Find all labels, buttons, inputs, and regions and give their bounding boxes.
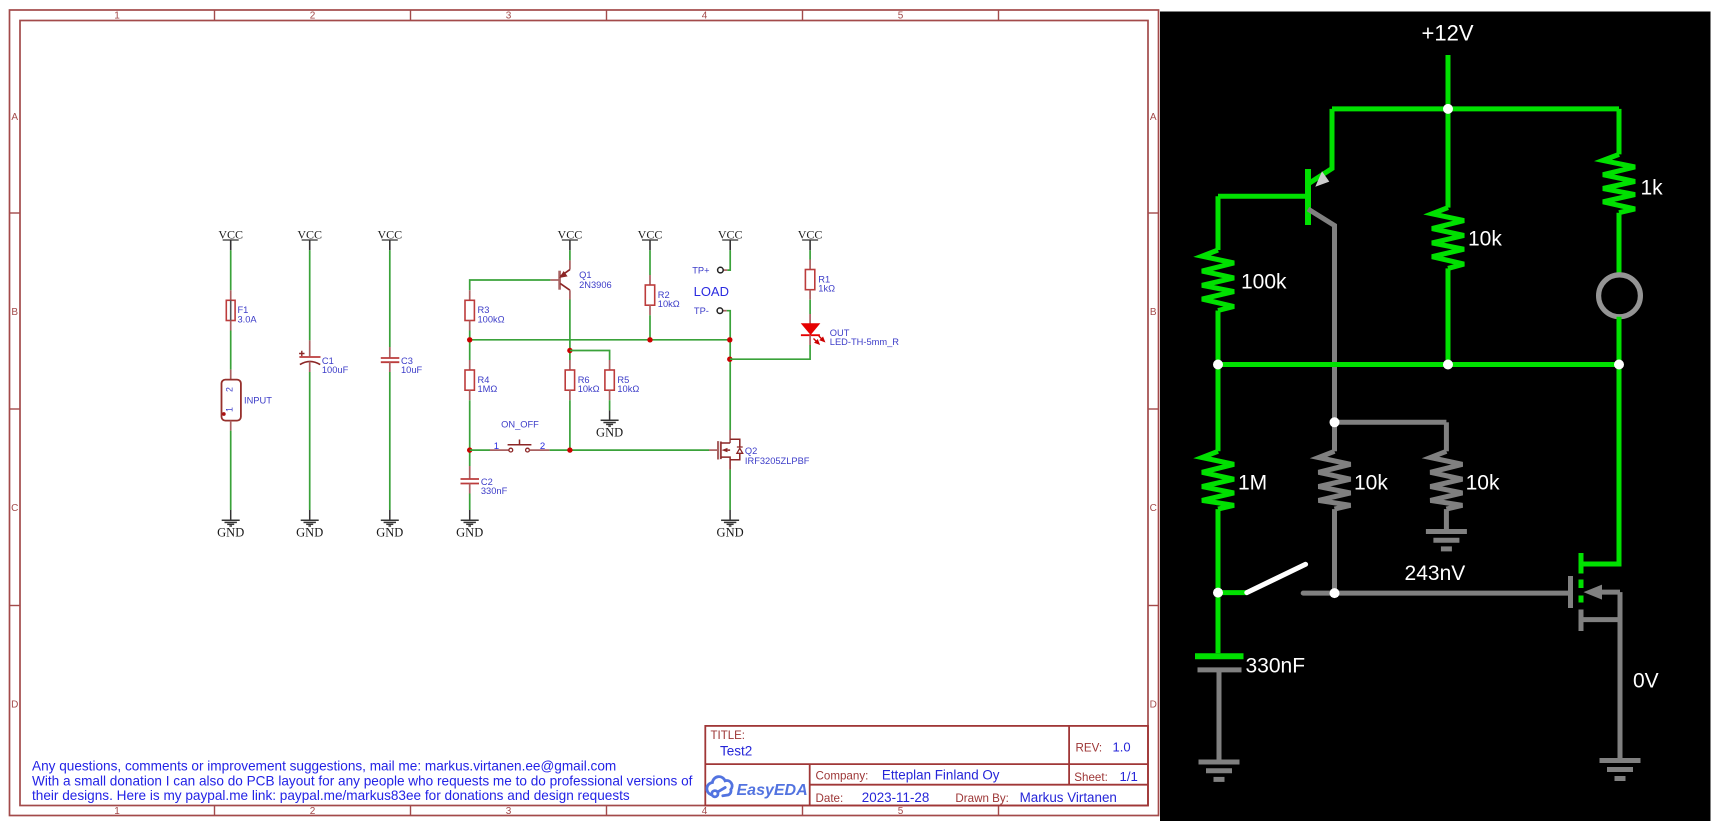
LED OUT <box>801 314 824 345</box>
resistor R4 <box>465 360 474 400</box>
power flag VCC net Q1 column <box>558 227 583 250</box>
label R3 100k <box>478 305 505 324</box>
test point TP- <box>717 308 727 314</box>
title block company value <box>882 768 1000 783</box>
svg-text:3: 3 <box>506 11 512 22</box>
label +12V <box>1422 21 1474 46</box>
svg-text:B: B <box>1150 307 1157 318</box>
label R5 10k <box>617 375 639 394</box>
title block title value Test2 <box>720 744 752 759</box>
label OUT LED-TH-5mm_R <box>830 328 899 347</box>
ground symbol R5 <box>601 410 619 426</box>
svg-text:10k: 10k <box>1354 472 1388 495</box>
svg-text:10kΩ: 10kΩ <box>658 299 680 309</box>
label R4 1M <box>478 375 498 394</box>
ground symbol Q2 <box>721 510 739 526</box>
svg-text:10k: 10k <box>1466 472 1500 495</box>
resistor R1 <box>805 260 814 300</box>
svg-text:4: 4 <box>702 806 708 817</box>
column tick marks bottom band <box>215 806 999 816</box>
svg-text:2: 2 <box>540 441 545 452</box>
capacitor C3 <box>381 347 400 372</box>
wire switch stub <box>1218 590 1247 595</box>
svg-text:1: 1 <box>114 11 120 22</box>
wire top rail <box>1332 106 1619 111</box>
wire F1 to INPUT <box>230 331 232 370</box>
row labels right <box>1150 112 1157 711</box>
MOSFET channel segment green1 <box>1579 564 1584 574</box>
svg-text:10kΩ: 10kΩ <box>617 384 639 394</box>
svg-text:D: D <box>1150 700 1157 711</box>
wire R5 to GND <box>609 400 611 410</box>
svg-text:100k: 100k <box>1241 271 1287 294</box>
node dot bus right <box>1614 360 1624 370</box>
wire VCC to R2 <box>649 250 651 275</box>
resistor R5 <box>605 360 614 400</box>
junction node R6 R5 <box>567 348 572 353</box>
power flag VCC net C3 column <box>377 227 402 250</box>
resistor R3 <box>465 290 474 330</box>
transistor Q1 PNP <box>550 260 570 299</box>
junction node bus R6 <box>567 447 572 452</box>
transistor Q2 MOSFET <box>709 430 743 470</box>
ground label GND C1 column <box>296 525 323 539</box>
connector P INPUT <box>222 370 241 431</box>
label INPUT <box>244 395 272 405</box>
svg-text:Etteplan Finland Oy: Etteplan Finland Oy <box>882 768 1000 783</box>
node dot top rail <box>1443 104 1453 114</box>
label TP+ <box>692 265 709 275</box>
EasyEDA logo cloud <box>707 777 732 797</box>
node dot bus left <box>1213 360 1223 370</box>
title block REV label <box>1076 742 1103 755</box>
junction node bottom bus left <box>467 447 472 452</box>
label 243nV <box>1405 562 1466 585</box>
wire VCC to R1 <box>809 250 811 259</box>
title block drawn by value <box>1020 790 1117 805</box>
wire VCC to C3 <box>389 250 391 347</box>
ground symbol C1 column <box>301 510 319 526</box>
wire VCC to TP+ <box>727 250 730 270</box>
MOSFET body link wire <box>1602 590 1620 595</box>
MOSFET channel segment green2 <box>1579 580 1584 589</box>
capacitor 330nF top plate <box>1195 653 1244 659</box>
svg-text:VCC: VCC <box>558 227 583 241</box>
label ON_OFF <box>501 419 539 429</box>
title block frame <box>705 726 1148 806</box>
pin number 2 <box>540 441 545 452</box>
title block Sheet label <box>1074 771 1108 784</box>
junction node LED wire <box>727 357 732 362</box>
label C2 330nF <box>481 477 508 496</box>
ground label GND F1 column <box>217 525 244 539</box>
svg-text:VCC: VCC <box>638 227 663 241</box>
svg-text:C: C <box>1150 503 1157 514</box>
svg-text:243nV: 243nV <box>1405 562 1466 585</box>
wire VCC to F1 <box>230 250 232 290</box>
title block Company label <box>816 770 869 783</box>
svg-text:1: 1 <box>494 441 499 452</box>
wire R2 to main net <box>649 315 651 340</box>
svg-text:VCC: VCC <box>218 227 243 241</box>
svg-text:IRF3205ZLPBF: IRF3205ZLPBF <box>745 456 810 466</box>
wire 1M to switch <box>1216 509 1221 592</box>
wire 10k to bus <box>1446 268 1451 364</box>
wire VCC to Q1 emitter <box>569 250 571 260</box>
svg-text:1: 1 <box>225 407 235 412</box>
svg-text:2: 2 <box>225 387 235 392</box>
row tick marks left band <box>10 213 21 606</box>
svg-text:TP-: TP- <box>694 306 709 316</box>
capacitor C2 <box>461 466 480 494</box>
wire 100k to bus <box>1216 311 1221 365</box>
svg-text:Date:: Date: <box>816 792 844 805</box>
node dot gate line <box>1330 588 1340 598</box>
junction node TP main net <box>727 337 732 342</box>
label R2 10k <box>658 290 680 309</box>
wire drain from bus <box>1581 365 1619 565</box>
column labels top <box>114 11 904 22</box>
svg-text:VCC: VCC <box>798 227 823 241</box>
svg-text:A: A <box>1150 112 1157 123</box>
ground symbol below 10k gray2 <box>1426 532 1467 549</box>
svg-text:With a small donation I can al: With a small donation I can also do PCB … <box>32 773 693 788</box>
svg-text:REV:: REV: <box>1076 742 1103 755</box>
wire base to 100k <box>1216 196 1221 250</box>
svg-text:Drawn By:: Drawn By: <box>955 792 1008 805</box>
svg-text:5: 5 <box>898 11 904 22</box>
node dot switch pivot <box>1213 588 1223 598</box>
svg-text:2023-11-28: 2023-11-28 <box>862 790 930 805</box>
wire 10k gray2 top lead <box>1444 422 1449 451</box>
svg-text:1: 1 <box>114 806 120 817</box>
power flag VCC net R1 column <box>798 227 823 250</box>
node dot bus center <box>1443 360 1453 370</box>
svg-text:TP+: TP+ <box>692 265 709 275</box>
switch lever open <box>1247 564 1306 592</box>
wire TP- down to Q2 drain <box>727 311 730 430</box>
border frame inner rect <box>20 21 1148 806</box>
svg-text:Any questions, comments or imp: Any questions, comments or improvement s… <box>32 759 616 774</box>
border frame outer rect <box>10 10 1159 816</box>
resistor R2 <box>645 275 654 315</box>
ground symbol C2 column <box>461 510 479 526</box>
svg-text:TITLE:: TITLE: <box>711 730 746 742</box>
resistor 10k green <box>1432 208 1464 269</box>
svg-text:3.0A: 3.0A <box>238 314 258 324</box>
bottom bus wire right segment <box>550 449 709 451</box>
svg-text:Sheet:: Sheet: <box>1074 771 1108 784</box>
svg-text:Company:: Company: <box>816 770 869 783</box>
wire rail to 1k <box>1617 109 1622 154</box>
power flag VCC net C1 column <box>297 227 322 250</box>
wire VCC to C1 <box>309 250 311 340</box>
wire source to ground <box>1618 592 1623 758</box>
wire 1k to LED <box>1617 213 1622 276</box>
label TP- <box>694 306 709 316</box>
node dot gray junction <box>1330 417 1340 427</box>
switch SW ON_OFF <box>490 440 550 453</box>
svg-text:ON_OFF: ON_OFF <box>501 419 539 429</box>
transistor Q1 base bar <box>1305 169 1311 225</box>
label R1 1k <box>818 274 835 293</box>
svg-text:VCC: VCC <box>377 227 402 241</box>
svg-text:10kΩ: 10kΩ <box>578 384 600 394</box>
transistor Q1 collector lead <box>1308 209 1335 422</box>
wire 10k gray1 to gate line <box>1332 509 1337 593</box>
label 100k <box>1241 271 1287 294</box>
svg-text:GND: GND <box>296 525 323 539</box>
EasyEDA logo text <box>737 782 808 799</box>
ground symbol F1 column <box>222 510 240 526</box>
svg-text:D: D <box>11 700 18 711</box>
svg-text:Markus Virtanen: Markus Virtanen <box>1020 790 1117 805</box>
wire R3 to junction <box>469 331 471 361</box>
label F1 3.0A <box>238 305 258 324</box>
svg-text:GND: GND <box>376 525 403 539</box>
wire cap to ground <box>1217 670 1222 761</box>
ground symbol below cap <box>1199 762 1240 779</box>
svg-text:3: 3 <box>506 806 512 817</box>
wire to Q1 emitter <box>1308 109 1332 184</box>
wire 10k gray1 top lead <box>1332 422 1337 451</box>
svg-text:LOAD: LOAD <box>694 284 729 299</box>
test point TP+ <box>718 267 728 273</box>
row tick marks right band <box>1148 213 1159 606</box>
svg-text:GND: GND <box>456 525 483 539</box>
wire switch to MOSFET gate <box>1303 591 1568 596</box>
svg-text:their designs. Here is my payp: their designs. Here is my paypal.me link… <box>32 788 630 803</box>
svg-text:330nF: 330nF <box>1246 655 1306 678</box>
wire Q1 base <box>1218 194 1308 199</box>
pin number 1 <box>494 441 499 452</box>
svg-text:1M: 1M <box>1238 472 1267 495</box>
MOSFET channel segment green3 <box>1579 596 1584 603</box>
ground label GND C2 column <box>456 525 483 539</box>
wire C1 to GND <box>309 372 311 510</box>
wire R1 to LED <box>809 300 811 314</box>
wire C3 to GND <box>389 372 391 510</box>
label C3 10uF <box>401 356 423 375</box>
label 330nF <box>1246 655 1306 678</box>
wire 10k gray2 to ground <box>1444 509 1449 530</box>
svg-text:0V: 0V <box>1633 670 1659 693</box>
MOSFET source stub <box>1581 617 1620 622</box>
resistor 10k gray2 <box>1430 451 1462 509</box>
label R6 10k <box>578 375 600 394</box>
bottom bus wire left segment <box>470 449 490 451</box>
wire branch to R5 <box>570 351 610 361</box>
svg-text:C: C <box>11 503 18 514</box>
label 10k gray2 <box>1466 472 1500 495</box>
svg-text:2: 2 <box>310 11 316 22</box>
column tick marks top band <box>215 10 999 21</box>
label LOAD <box>694 284 729 299</box>
label Q2 IRF3205ZLPBF <box>745 446 810 466</box>
title block sheet value 1/1 <box>1120 769 1138 784</box>
svg-text:INPUT: INPUT <box>244 395 272 405</box>
wire LED to Q2 drain node <box>730 345 810 359</box>
wire +12V stub <box>1446 55 1451 109</box>
title block TITLE label <box>711 730 746 742</box>
svg-text:EasyEDA: EasyEDA <box>737 782 808 799</box>
label 1k <box>1641 176 1664 199</box>
column labels bottom <box>114 806 904 817</box>
wire C2 to GND <box>469 494 471 511</box>
svg-text:1kΩ: 1kΩ <box>818 284 835 294</box>
wire Q2 source to GND <box>729 470 731 510</box>
svg-text:Test2: Test2 <box>720 744 752 759</box>
MOSFET gate bar <box>1568 576 1573 608</box>
ground symbol below MOSFET <box>1600 761 1641 779</box>
svg-text:GND: GND <box>596 425 623 439</box>
svg-text:10k: 10k <box>1468 228 1502 251</box>
resistor 1M <box>1202 451 1234 509</box>
label 10k center <box>1468 228 1502 251</box>
capacitor 330nF bottom plate <box>1198 667 1242 672</box>
junction node R2 main net <box>647 337 652 342</box>
svg-text:1MΩ: 1MΩ <box>478 384 498 394</box>
svg-text:LED-TH-5mm_R: LED-TH-5mm_R <box>830 337 899 347</box>
svg-text:VCC: VCC <box>297 227 322 241</box>
wire Q1 collector down <box>569 300 571 361</box>
svg-text:1k: 1k <box>1641 176 1664 199</box>
fuse F1 <box>226 290 235 330</box>
row labels left <box>11 112 18 711</box>
label 10k gray1 <box>1354 472 1388 495</box>
svg-text:Q2: Q2 <box>745 446 757 456</box>
note text line 2 <box>32 773 693 788</box>
label 0V <box>1633 670 1659 693</box>
main horizontal net wire <box>470 339 730 341</box>
ground label GND C3 column <box>376 525 403 539</box>
resistor 100k <box>1202 250 1234 311</box>
wire bus to 1M <box>1216 365 1221 452</box>
LED circle <box>1599 275 1641 317</box>
wire R4 to bottom bus <box>469 400 471 466</box>
MOSFET body arrow <box>1584 585 1603 600</box>
svg-text:100uF: 100uF <box>322 365 349 375</box>
capacitor C1 polarized <box>299 340 320 372</box>
svg-text:4: 4 <box>702 11 708 22</box>
label Q1 2N3906 <box>579 270 612 290</box>
label 1M <box>1238 472 1267 495</box>
ground symbol C3 column <box>381 510 399 526</box>
svg-text:+12V: +12V <box>1422 21 1474 46</box>
power flag VCC net TP column <box>718 227 743 250</box>
svg-text:2: 2 <box>310 806 316 817</box>
ground label GND Q2 <box>717 525 744 539</box>
junction node R3 R4 <box>467 337 472 342</box>
wire INPUT to GND <box>230 431 232 510</box>
wire 12V to 10k <box>1446 109 1451 208</box>
wire mid bus <box>1218 362 1619 367</box>
note text line 1 <box>32 759 616 774</box>
title block date value <box>862 790 930 805</box>
title block rev value 1.0 <box>1113 740 1131 755</box>
svg-text:Q1: Q1 <box>579 270 591 280</box>
svg-text:B: B <box>11 307 18 318</box>
simulator canvas background <box>1160 12 1711 822</box>
svg-text:GND: GND <box>217 525 244 539</box>
svg-text:330nF: 330nF <box>481 486 508 496</box>
title block Drawn By label <box>955 792 1008 805</box>
svg-text:10uF: 10uF <box>401 365 423 375</box>
note text line 3 <box>32 788 630 803</box>
power flag VCC net F1 column <box>218 227 243 250</box>
wire cap top <box>1216 593 1221 654</box>
ground label GND R5 <box>596 425 623 439</box>
svg-text:100kΩ: 100kΩ <box>478 314 505 324</box>
svg-text:GND: GND <box>717 525 744 539</box>
wire collector junction to 10k gray pair <box>1335 420 1447 425</box>
svg-text:1/1: 1/1 <box>1120 769 1138 784</box>
svg-text:1.0: 1.0 <box>1113 740 1131 755</box>
svg-text:A: A <box>11 112 18 123</box>
svg-text:VCC: VCC <box>718 227 743 241</box>
power flag VCC net R2 column <box>638 227 663 250</box>
svg-text:5: 5 <box>898 806 904 817</box>
transistor Q1 emitter arrow <box>1315 171 1329 187</box>
resistor R6 <box>565 360 574 400</box>
title block Date label <box>816 792 844 805</box>
resistor 1k <box>1603 154 1635 212</box>
svg-text:2N3906: 2N3906 <box>579 280 612 290</box>
wire R3 top to Q1 base <box>470 280 551 290</box>
label C1 100uF <box>322 356 349 375</box>
wire LED to bus <box>1617 317 1622 365</box>
MOSFET channel segment gray <box>1579 610 1584 632</box>
wire R6 to bottom bus <box>569 400 571 450</box>
resistor 10k gray1 <box>1319 451 1351 509</box>
